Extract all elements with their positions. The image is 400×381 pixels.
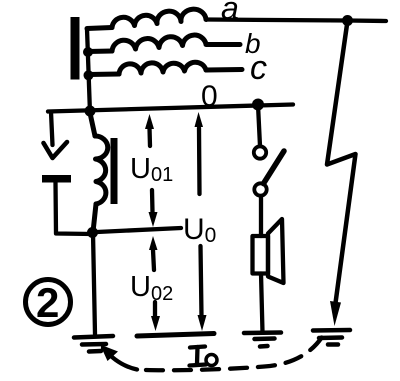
dimension arrow U01 top xyxy=(145,114,154,146)
lightning down-lead with arrow xyxy=(327,21,356,326)
node (winding b tap) xyxy=(83,47,93,57)
svg-text:0: 0 xyxy=(201,80,218,113)
label 2 (figure number) xyxy=(26,279,71,326)
node (bus left junction) xyxy=(85,106,96,117)
dimension arrow U0 bottom (long) xyxy=(198,246,207,331)
node (winding c tap) xyxy=(84,70,94,80)
inductor winding a xyxy=(87,9,206,28)
ground (left) xyxy=(74,336,113,352)
wire (speaker to ground) xyxy=(261,274,263,333)
switch S xyxy=(254,105,284,236)
wire (left branch with slider arrow) xyxy=(44,112,68,158)
core bar (top transformer core) xyxy=(71,17,80,80)
node (line a / lightning junction) xyxy=(342,15,353,26)
svg-text:a: a xyxy=(221,0,239,26)
node (bus switch junction) xyxy=(252,99,264,111)
contact bar (slider plate) xyxy=(42,175,71,183)
wire (0 bus) xyxy=(48,105,293,112)
dimension arrow U02 bottom xyxy=(151,302,160,331)
dimension arrow U02 top xyxy=(149,236,158,270)
svg-text:2: 2 xyxy=(36,279,59,326)
svg-text:U01: U01 xyxy=(130,153,173,186)
wire (bottom reference line) xyxy=(137,334,214,337)
svg-text:U0: U0 xyxy=(183,213,216,247)
inductor winding c xyxy=(89,62,243,74)
inductor winding b xyxy=(88,35,240,51)
svg-text:U02: U02 xyxy=(130,271,173,305)
wire (U0 level line) xyxy=(97,228,181,232)
node (bottom junction) xyxy=(87,227,98,238)
dimension arrow U01 bottom xyxy=(149,190,158,227)
ground (center, under speaker) xyxy=(244,333,281,347)
dashed current path I0 xyxy=(100,337,322,370)
dimension arrow U0 top xyxy=(195,112,204,194)
svg-text:c: c xyxy=(250,49,267,87)
wire (line a to right edge) xyxy=(206,20,386,22)
wire (bottom junction to left ground) xyxy=(93,233,95,334)
core bar (shunt coil core) xyxy=(111,138,118,204)
label I0 xyxy=(190,347,218,366)
inductor L (shunt coil) xyxy=(90,113,108,232)
wire (feeder vertical from windings to bus) xyxy=(87,29,90,113)
wire (below slider to bottom junction) xyxy=(56,183,93,235)
speaker LS xyxy=(253,219,284,283)
ground (right) xyxy=(313,330,350,345)
